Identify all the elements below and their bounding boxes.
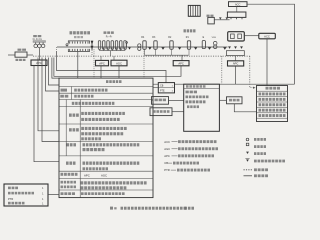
prod line2: [186, 96, 189, 99]
row I line1: [81, 181, 84, 184]
edger stand E: [202, 41, 205, 49]
table row line F: [59, 155, 153, 157]
box ACC (furnace combustion): [229, 2, 248, 7]
svg-text:ACC: ACC: [235, 2, 241, 6]
flying shear blades: [91, 41, 93, 51]
furnace hatch line: [194, 5, 196, 16]
table row line D: [59, 123, 153, 125]
box ACC (width control): [259, 33, 276, 39]
cooling top tooth 1: [69, 42, 71, 44]
label below left box: [16, 59, 19, 61]
coiler C1 circle: [34, 44, 38, 48]
shear upper blade: [91, 41, 94, 45]
legend symbol circle 测厚计: [246, 138, 249, 141]
label 粗轧机组: [184, 29, 186, 32]
metal detector at x=163: [161, 47, 164, 49]
svg-text:CB: CB: [164, 161, 168, 165]
svg-text:PTE: PTE: [160, 89, 165, 92]
cooling bottom tooth 6: [82, 49, 84, 51]
cooling top tooth 6: [82, 42, 84, 44]
detector on furnace line 2: [226, 17, 229, 19]
cooling top tooth 2: [71, 42, 73, 44]
row label 精轧机: [69, 114, 72, 117]
peripheral 输入/输出打字机: [8, 192, 11, 195]
box AGC (finishing): [111, 60, 127, 66]
svg-text:AGC: AGC: [164, 147, 170, 151]
caption 图1: [110, 207, 113, 210]
wire: coiler APC to coiler row: [34, 66, 59, 162]
svg-text:PTR: PTR: [8, 197, 13, 201]
cooling top tooth 4: [77, 42, 79, 44]
wire: roughing bracket to APC: [181, 55, 183, 60]
box: down-coiler conveyor (left device): [15, 52, 27, 57]
wire: coiler 3 post: [42, 42, 44, 44]
row label 轧机监视: [61, 173, 64, 176]
wire: dashed bus drop at x222: [221, 56, 223, 84]
table row line E: [59, 141, 153, 143]
row label 数据: [61, 89, 68, 92]
box CB/PTR: [158, 83, 174, 93]
vertical edger roll bottom circle: [213, 45, 217, 49]
row E line2: [81, 132, 84, 135]
wire: APC finishing down to table: [100, 66, 102, 78]
svg-text:APC: APC: [178, 62, 184, 66]
prod line1: [186, 91, 189, 94]
svg-text:APC: APC: [84, 174, 90, 178]
finishing stands F1-F7: [98, 41, 100, 50]
x-ray gauge circle after F7: [126, 42, 128, 44]
cooling top tooth 7: [84, 42, 86, 44]
row B content: [74, 95, 77, 98]
detector under press: [228, 46, 231, 49]
wire: press APC down to bus: [235, 66, 237, 84]
svg-text:ACC: ACC: [164, 140, 170, 144]
wire: nested connector 2: [38, 58, 59, 131]
label pusher: [207, 15, 210, 17]
title 生产程序计算机: [186, 85, 189, 88]
prod line4: [187, 105, 189, 108]
coiler mandrel rail (hatched): [33, 41, 46, 43]
wire: wrap line to CB/PTR box: [57, 51, 167, 83]
row C content 跟踪: [72, 102, 75, 105]
laminar cooling top comb: [68, 41, 89, 44]
console row 2: [259, 98, 262, 101]
wire: press to ACC: [244, 35, 258, 37]
wire: mill pass line: [57, 46, 228, 48]
wire: dashed bus down/right with arrow: [250, 56, 253, 88]
table row line G: [59, 170, 153, 172]
wire: dashed tick x94: [93, 49, 95, 56]
wire: nested connector 6 to table corner: [52, 58, 59, 79]
shear lower blade: [91, 46, 94, 50]
wire: nested connector 3: [42, 58, 59, 142]
wire: table to CB/PTR box: [153, 83, 158, 85]
wire table to CB box: [153, 87, 158, 89]
legend symbol filled triangle 测温计: [246, 152, 249, 154]
detector after finishing: [128, 47, 131, 49]
console list divider: [257, 101, 288, 103]
table label col: [79, 100, 81, 198]
metal detector at x=149.8: [148, 47, 151, 49]
row G line1: [83, 162, 86, 165]
box: 生产程序计算机: [184, 84, 220, 131]
roughing stand R4: [143, 41, 146, 49]
wire 视频装置 to production computer: [172, 111, 184, 113]
row label 卷取机: [66, 162, 69, 165]
wire: coiler to APC box: [38, 55, 40, 60]
box APC (press): [228, 61, 244, 66]
table row line H: [59, 177, 153, 179]
console list divider: [257, 117, 288, 119]
foot of descaler: [241, 17, 243, 19]
row D line2: [81, 118, 84, 121]
wire: cooling down to computer table: [77, 52, 79, 79]
svg-text:APC: APC: [36, 61, 42, 65]
cooling bottom tooth 7: [84, 49, 86, 51]
wire gauge tick: [126, 44, 128, 48]
bracket under finishing stands: [100, 50, 125, 52]
detector on furnace line 1: [219, 17, 222, 19]
row F line2: [83, 148, 86, 151]
row D line1: [81, 112, 84, 115]
wire: AGC finishing down to table: [118, 66, 120, 78]
wire 操作台 to production computer: [169, 100, 184, 102]
furnace hatch line: [192, 5, 194, 16]
wire: coiler 2 post: [38, 42, 40, 44]
reheating furnace (hatched): [188, 5, 200, 16]
svg-text:PTR: PTR: [164, 168, 169, 172]
cooling bottom tooth 4: [77, 49, 79, 51]
table row line A: [59, 92, 153, 94]
console row 1: [259, 93, 262, 96]
wire: nested connector 5: [49, 58, 60, 86]
console list divider: [257, 112, 288, 114]
cooling bottom tooth 3: [74, 49, 76, 51]
dashed tick at cooling: [56, 47, 58, 51]
roughing stand R1: [187, 41, 190, 49]
foot of descaler: [230, 17, 232, 19]
box: descaler/weigher on furnace line: [227, 12, 246, 17]
title 控制计算机: [106, 80, 108, 83]
detector under press: [240, 46, 243, 49]
cooling bottom tooth 2: [71, 49, 73, 51]
console list title: [266, 87, 269, 90]
legend symbol open triangle detector: [246, 159, 249, 161]
wire: roughing APC wrap-around line: [54, 58, 181, 77]
label above left box: [18, 49, 22, 51]
box 操作台 (left small): [152, 97, 169, 105]
tick from roughing stand: [144, 49, 146, 55]
svg-text:APC: APC: [99, 62, 105, 66]
peripheral 光电输入机: [8, 202, 11, 205]
coiler C2 circle: [38, 44, 42, 48]
row label 轧制节奏: [60, 95, 64, 98]
console list divider: [257, 96, 288, 98]
svg-text:AGC: AGC: [116, 62, 122, 66]
row label 数据记录: [61, 186, 63, 189]
label 视频装置: [153, 110, 156, 113]
legend symbol square 测宽计: [246, 143, 249, 146]
box: sizing press / edger unit: [228, 32, 245, 41]
svg-text:CB: CB: [160, 85, 164, 88]
wire peripherals to table: [48, 194, 59, 196]
wire: nested connector 4: [46, 58, 60, 92]
wire: bus tick to AGC finishing: [113, 56, 115, 60]
legend dashed line sample: [244, 169, 253, 171]
legend solid line sample: [244, 175, 253, 177]
metal detector at x=179.6: [178, 47, 181, 49]
row J content: [81, 192, 84, 195]
box: console list: [257, 86, 288, 122]
small label under: [74, 36, 76, 38]
svg-text:V1B: V1B: [212, 37, 217, 39]
row label 工程记录: [61, 192, 64, 195]
console list divider: [257, 106, 288, 108]
label 卷取机 (coiler): [33, 35, 37, 37]
vertical edger roll top circle: [213, 41, 217, 45]
tick from roughing stand: [155, 49, 157, 55]
wire: ACC down to console box: [266, 39, 268, 86]
wire: dashed x94 to table: [93, 56, 95, 78]
label 活套支持器 above cooling: [70, 31, 73, 34]
cooling top tooth 5: [79, 42, 81, 44]
wire: dashed tick x144: [143, 49, 145, 56]
peripheral 打字机: [8, 187, 11, 190]
table row line I: [59, 189, 153, 191]
wire: dashed computer-input bus: [33, 55, 250, 57]
coiler C3 circle: [41, 44, 45, 48]
cooling top tooth 3: [74, 42, 76, 44]
detector under press: [234, 46, 237, 49]
table line under title: [59, 86, 153, 88]
cooling bottom tooth 8: [87, 49, 89, 51]
pinch roll top circle: [138, 44, 141, 47]
wire: shear dashed to bus: [91, 50, 93, 56]
console row 5: [259, 114, 262, 117]
cooling top tooth 8: [87, 42, 89, 44]
furnace hatch line: [190, 5, 192, 16]
metal detector at x=224.8: [223, 47, 226, 49]
box 操作台 (right small): [227, 97, 243, 104]
row A content: [74, 89, 77, 92]
label 操作台 right: [229, 99, 232, 102]
box: 控制计算机 main table: [59, 78, 153, 198]
wire: line from left box to coiler: [27, 54, 33, 56]
box APC (coiler): [31, 60, 47, 66]
box APC (finishing): [96, 60, 109, 65]
row E line1: [81, 127, 84, 130]
wire production to right console: [219, 99, 226, 101]
label 操作台: [155, 99, 158, 102]
wire: coiler down to line: [38, 48, 40, 55]
box: pusher/extractor: [208, 17, 215, 24]
table col line rows A-B: [71, 87, 73, 100]
cooling bottom tooth 5: [79, 49, 81, 51]
wire ACC to descaler: [236, 7, 238, 13]
roughing stand R3: [154, 41, 157, 49]
table row line C: [59, 106, 153, 108]
row label 宽度控制: [67, 143, 70, 146]
wire: finishing bracket to bus: [110, 51, 112, 56]
tick from roughing stand: [171, 49, 173, 55]
wire: bus tick to APC finishing: [100, 56, 102, 60]
bracket under roughing stands: [145, 54, 189, 56]
console list divider: [257, 90, 288, 92]
box 视频装置: [150, 108, 172, 116]
row G line2: [83, 167, 85, 170]
wire: dashed x144 to table: [143, 56, 145, 78]
table row line B: [59, 99, 153, 101]
label 精轧机组: [104, 31, 107, 34]
tick from roughing stand: [188, 49, 190, 55]
laminar cooling bottom comb: [68, 49, 89, 52]
metal detector at x=209.5: [208, 47, 211, 49]
box APC (roughing): [173, 61, 189, 66]
svg-text:APC: APC: [233, 62, 239, 66]
row I line2: [81, 186, 84, 189]
roughing stand R2: [170, 41, 173, 49]
table narrow col: [65, 100, 67, 156]
furnace hatch line: [197, 5, 199, 16]
wire: runout table line left: [8, 54, 15, 56]
wire: coiler 1 post: [35, 42, 37, 44]
row label 粗轧机: [69, 128, 72, 131]
prod line3: [186, 100, 189, 103]
console row 3: [259, 103, 262, 106]
svg-text:ACC: ACC: [264, 34, 270, 38]
wire holding box to APC: [234, 56, 236, 61]
wire: furnace ACC wraps right side down: [247, 4, 295, 84]
svg-text:AGC: AGC: [101, 174, 107, 178]
box: peripherals list: [4, 184, 48, 206]
holding table box under press: [226, 51, 244, 56]
row E line3: [81, 137, 84, 140]
wire: bus y84 to right edge: [175, 83, 295, 85]
row F line1: [83, 143, 86, 146]
gauge circle at cooling entry: [66, 44, 68, 46]
metal detector at x=195.7: [194, 47, 197, 49]
wire gauge tick: [66, 46, 68, 47]
foot of descaler: [236, 17, 238, 19]
cooling bottom tooth 1: [69, 49, 71, 51]
wire: furnace exit roller line: [214, 19, 229, 21]
console row 4: [259, 109, 262, 112]
svg-text:APC: APC: [164, 154, 170, 158]
wire right console to console list: [234, 104, 256, 112]
pinch roll bottom circle: [138, 47, 141, 50]
svg-text:F1~F7: F1~F7: [106, 35, 112, 38]
